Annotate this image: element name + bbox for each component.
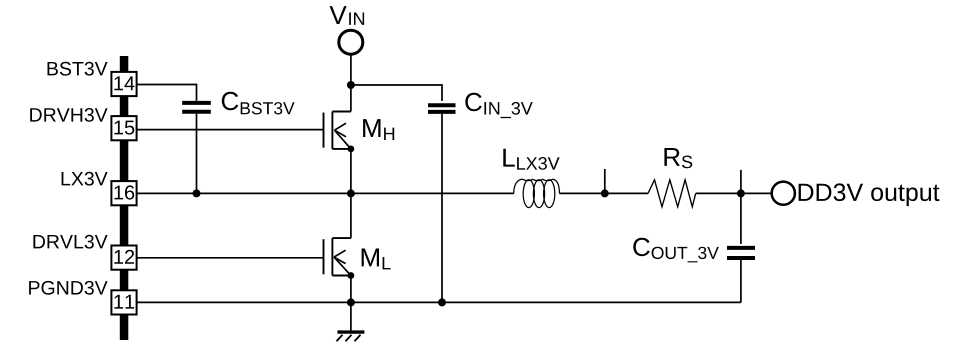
wire pin11 PGND3V	[138, 301, 741, 303]
IC edge rail (thick vertical bar)	[120, 56, 129, 340]
label CBST3V	[222, 92, 295, 115]
pin label DRVL3V	[33, 235, 107, 249]
label RS	[664, 148, 692, 168]
wire VIN node to CIN	[351, 85, 442, 101]
label LLX3V	[503, 149, 559, 170]
wire pin14 to CBST3V	[138, 85, 197, 101]
label COUT_3V	[633, 238, 719, 263]
wire ML source to PGND	[350, 276, 352, 331]
label VIN	[330, 6, 365, 25]
terminal VIN	[339, 30, 363, 54]
node VIN/CIN junction	[347, 81, 355, 89]
wire MH source to LX	[350, 149, 352, 238]
capacitor CBST3V	[182, 103, 211, 112]
wire CBST3V to LX node	[196, 114, 198, 194]
label CIN_3V	[465, 93, 532, 118]
label DD3V output	[799, 183, 940, 206]
node sense junction	[601, 189, 609, 197]
pin label LX3V	[62, 172, 108, 186]
label ML	[362, 249, 391, 270]
inductor LLX3V	[514, 179, 560, 207]
wire VIN to MH drain	[350, 55, 352, 111]
pin box 11	[111, 290, 136, 314]
capacitor COUT_3V	[727, 248, 755, 258]
node output junction	[737, 189, 745, 197]
transistor MH	[324, 112, 355, 153]
stub at sense node	[604, 169, 606, 193]
wire COUT to PGND	[740, 260, 742, 302]
wire pin12 to ML gate	[138, 257, 324, 259]
terminal DD3V	[772, 182, 795, 205]
wire output node to COUT	[740, 193, 742, 244]
capacitor CIN_3V	[428, 105, 456, 112]
wire RS to output node	[696, 192, 771, 194]
stub at output node	[740, 170, 742, 194]
pin box 16	[111, 181, 136, 205]
pin label PGND3V	[29, 281, 108, 295]
pin box 15	[111, 116, 136, 140]
node MH/LX junction	[347, 189, 355, 197]
wire pin15 to MH gate	[138, 129, 324, 131]
label MH	[363, 119, 394, 140]
node ML/PGND junction	[347, 298, 355, 306]
ground	[337, 332, 365, 341]
wire inductor to RS	[560, 192, 649, 194]
node CBST3V/LX junction	[193, 189, 201, 197]
node CIN/PGND junction	[438, 298, 446, 306]
resistor RS	[648, 180, 696, 207]
pin label DRVH3V	[30, 108, 107, 122]
pin label BST3V	[48, 62, 108, 76]
pin box 14	[111, 72, 136, 96]
pin box 12	[111, 246, 136, 270]
transistor ML	[324, 238, 355, 279]
wire CIN to PGND	[441, 114, 443, 303]
wire pin16 LX3V	[138, 192, 514, 194]
